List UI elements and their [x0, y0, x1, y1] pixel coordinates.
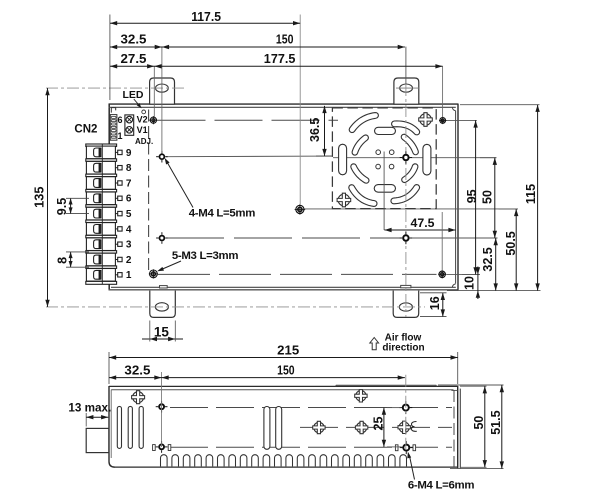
svg-text:LED: LED — [123, 89, 144, 101]
fan slot outer top-right — [392, 121, 420, 135]
leader 4-M4 — [166, 160, 193, 207]
svg-text:115: 115 — [524, 184, 538, 204]
hole bottom-right — [439, 271, 445, 277]
centreline symbol — [412, 422, 417, 432]
side hole right top — [402, 404, 410, 412]
svg-text:32.5: 32.5 — [124, 362, 150, 377]
dim 135 — [47, 88, 49, 307]
centreline bottom tabs horizontal — [46, 306, 425, 308]
hole top-right — [440, 118, 446, 124]
screw 4-M4 lower — [159, 235, 166, 242]
mounting tab top-left — [150, 78, 175, 104]
dim 36.5 — [324, 106, 326, 156]
screw 4-M4 upper — [159, 153, 166, 160]
dim 50.5 — [515, 209, 517, 291]
svg-text:V2: V2 — [137, 115, 148, 125]
hidden line vertical (PCB edge) — [148, 110, 150, 273]
side hole left top — [158, 403, 165, 410]
side view case outline — [109, 385, 458, 387]
bottom scallop vents — [161, 455, 168, 467]
fan screw top-right — [420, 114, 432, 126]
dim 27.5 / 177.5 — [110, 65, 443, 67]
fan slot inner lower-left — [351, 164, 369, 183]
svg-text:13 max.: 13 max. — [68, 402, 111, 415]
LED indicator — [142, 110, 146, 114]
leader 6-M4 — [409, 455, 414, 480]
svg-text:16: 16 — [428, 296, 442, 310]
fan slot inner top — [375, 127, 396, 134]
svg-text:177.5: 177.5 — [264, 51, 296, 66]
centreline top tabs horizontal — [46, 87, 185, 89]
fan centre crosshair — [383, 152, 385, 231]
svg-text:direction: direction — [382, 343, 424, 354]
extension line row 4-M4 top screws — [166, 155, 332, 158]
middle vent slots — [264, 407, 270, 450]
svg-text:2: 2 — [126, 255, 132, 266]
svg-text:5-M3 L=3mm: 5-M3 L=3mm — [172, 250, 238, 262]
dim 10 — [477, 267, 479, 300]
svg-text:27.5: 27.5 — [121, 51, 147, 66]
fan hub holes — [376, 150, 381, 155]
fan slot outer bottom-right — [391, 185, 420, 204]
fan screw bottom-left — [338, 194, 350, 206]
fan slot outer right — [423, 144, 431, 175]
centreline vertical through right tabs and fan hole — [405, 47, 407, 84]
vent notch bottom edge left — [160, 286, 168, 288]
svg-text:4-M4 L=5mm: 4-M4 L=5mm — [189, 207, 255, 219]
svg-text:51.5: 51.5 — [489, 410, 503, 434]
svg-text:V1: V1 — [137, 125, 148, 135]
fan slot inner lower-right — [402, 164, 418, 183]
fan centre hole — [402, 154, 409, 161]
svg-text:CN2: CN2 — [74, 124, 97, 136]
dim 115 — [537, 105, 539, 291]
right extension lines — [460, 104, 540, 106]
extension lines side view — [108, 352, 110, 384]
svg-text:7: 7 — [126, 178, 132, 189]
side view hidden rows — [170, 407, 452, 409]
side hole right bottom — [402, 444, 410, 452]
small bars near left bottom hole — [153, 445, 156, 451]
vent notch bottom edge right — [401, 285, 411, 287]
dim 50 bottom — [484, 386, 486, 467]
side view right step — [451, 389, 457, 391]
svg-text:32.5: 32.5 — [481, 247, 495, 271]
centre screw — [296, 205, 304, 213]
dim 32.5 / 150 — [110, 46, 405, 48]
hidden line row y=238 — [166, 237, 401, 239]
svg-text:25: 25 — [371, 417, 385, 431]
side centreline vertical — [405, 375, 407, 454]
svg-text:1: 1 — [126, 270, 132, 281]
mounting tab bottom-right — [393, 291, 419, 318]
svg-text:6: 6 — [117, 115, 122, 125]
dim 15 — [142, 338, 183, 340]
svg-text:47.5: 47.5 — [411, 216, 435, 230]
dim 16 — [442, 293, 444, 317]
svg-text:9: 9 — [126, 148, 132, 159]
svg-text:36.5: 36.5 — [308, 118, 322, 142]
dim 13 max — [86, 416, 108, 418]
hidden line row y=274.4 — [158, 273, 437, 275]
svg-text:6: 6 — [126, 194, 132, 205]
svg-text:95: 95 — [465, 189, 479, 203]
LED leader arrow — [134, 99, 140, 107]
dim 32.5 / 150 bottom — [109, 377, 405, 379]
svg-text:32.5: 32.5 — [121, 31, 147, 46]
dim 117.5 — [110, 22, 300, 24]
AC connector side view — [86, 428, 109, 452]
svg-text:150: 150 — [277, 362, 295, 377]
extension line x=154.3 (27.5) — [153, 66, 155, 117]
svg-text:1: 1 — [117, 131, 122, 141]
side screws — [133, 392, 144, 403]
dim 9.5 — [70, 198, 72, 213]
small bars near right bottom hole — [395, 445, 398, 451]
leader 5-M3 — [159, 261, 181, 271]
hole below fan — [402, 234, 409, 241]
svg-text:ADJ.: ADJ. — [135, 137, 153, 146]
svg-text:50: 50 — [481, 190, 495, 204]
svg-text:135: 135 — [32, 187, 47, 208]
extension 47.5 vertical — [441, 212, 443, 271]
row line through centre screw y=209 — [304, 208, 518, 210]
side hole left bottom — [158, 444, 165, 451]
chassis screw top-left — [150, 117, 156, 123]
svg-text:150: 150 — [276, 31, 294, 46]
svg-text:4: 4 — [126, 224, 132, 235]
svg-text:9.5: 9.5 — [55, 198, 69, 215]
svg-text:50.5: 50.5 — [504, 231, 518, 255]
mounting tab bottom-left — [150, 291, 176, 318]
potentiometers V2 V1 — [125, 115, 134, 135]
svg-text:50: 50 — [472, 416, 486, 430]
fan opening dashed square — [332, 108, 436, 209]
dim 215 — [109, 357, 458, 359]
fan slot inner upper-left — [352, 135, 368, 155]
fan slot outer top-left — [349, 113, 378, 133]
hidden line row through chassis screws y=120 — [158, 119, 339, 121]
side view top lip — [336, 384, 436, 386]
dim 50 right — [494, 158, 496, 238]
svg-text:8: 8 — [126, 163, 132, 174]
svg-text:8: 8 — [56, 257, 70, 264]
svg-text:3: 3 — [126, 240, 132, 251]
svg-text:215: 215 — [277, 343, 299, 358]
extension line x=161.9 (32.5) — [161, 47, 163, 153]
svg-text:10: 10 — [462, 276, 476, 290]
terminal block — [86, 144, 117, 147]
connector CN2 — [110, 115, 117, 141]
fan slot outer bottom-left — [349, 185, 377, 207]
mounting tab top-right — [394, 78, 419, 104]
screw 5-M3 — [150, 270, 158, 278]
dim 51.5 — [501, 385, 503, 469]
svg-text:15: 15 — [154, 325, 170, 340]
dim 32.5 right — [495, 238, 497, 291]
air flow arrow — [370, 338, 379, 350]
dim 47.5 — [384, 229, 455, 231]
side vent slots — [117, 406, 121, 448]
extension line x=442.6 (177.5) — [442, 66, 444, 117]
svg-text:5: 5 — [126, 209, 132, 220]
fan slot outer left — [339, 144, 347, 175]
fan slot inner upper-right — [401, 134, 418, 155]
svg-text:6-M4 L=6mm: 6-M4 L=6mm — [408, 479, 474, 491]
extension line x=300 (117.5) — [299, 15, 301, 206]
dim 95 — [475, 120, 477, 274]
fan centre row line — [333, 157, 496, 159]
extension line left edge — [109, 15, 111, 101]
dim 8 — [70, 252, 72, 267]
power supply case top view outline — [108, 104, 110, 290]
svg-text:117.5: 117.5 — [191, 9, 221, 24]
fan slot inner bottom — [374, 185, 395, 193]
dim 25 — [383, 408, 385, 447]
